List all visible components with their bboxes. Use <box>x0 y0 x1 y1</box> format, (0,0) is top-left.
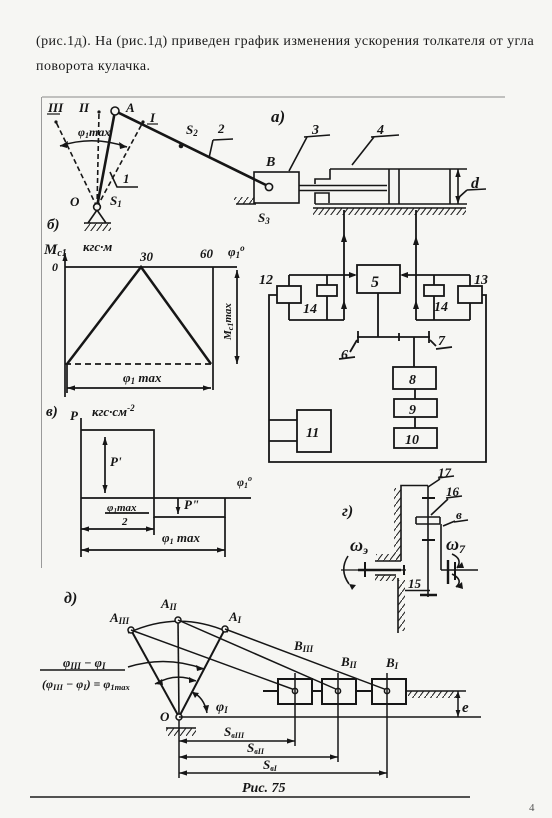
svg-text:10: 10 <box>405 433 419 448</box>
svg-text:d: d <box>471 175 480 192</box>
svg-text:BII: BII <box>340 654 357 670</box>
svg-text:5: 5 <box>371 274 379 291</box>
svg-text:8: 8 <box>409 373 416 388</box>
svg-text:0: 0 <box>52 260 58 274</box>
svg-text:б): б) <box>47 217 59 233</box>
svg-text:в: в <box>456 507 462 522</box>
svg-text:φ1max: φ1max <box>107 502 137 515</box>
svg-text:ωэ: ωэ <box>350 535 368 557</box>
svg-text:4: 4 <box>376 123 384 138</box>
svg-text:кгс·м: кгс·м <box>83 239 112 254</box>
svg-text:г): г) <box>342 503 353 520</box>
svg-text:кгс·см-2: кгс·см-2 <box>92 403 135 419</box>
svg-text:AI: AI <box>228 609 242 625</box>
svg-text:O: O <box>70 194 80 209</box>
svg-text:а): а) <box>271 107 285 126</box>
svg-text:φ1max: φ1max <box>78 125 110 140</box>
svg-text:в): в) <box>46 404 58 420</box>
svg-text:11: 11 <box>306 426 319 441</box>
svg-text:III: III <box>47 100 64 115</box>
svg-text:SвIII: SвIII <box>224 724 245 740</box>
svg-text:SвII: SвII <box>247 740 265 756</box>
svg-text:2: 2 <box>121 516 128 528</box>
svg-text:P: P <box>70 408 79 423</box>
svg-text:12: 12 <box>259 273 273 288</box>
svg-text:2: 2 <box>217 121 225 136</box>
svg-text:AIII: AIII <box>109 610 130 626</box>
svg-text:II: II <box>78 100 90 115</box>
svg-text:BI: BI <box>385 655 399 671</box>
svg-text:13: 13 <box>474 273 488 288</box>
svg-text:P': P' <box>110 454 122 469</box>
svg-text:S1: S1 <box>110 193 122 209</box>
svg-text:6: 6 <box>341 348 348 363</box>
svg-text:φI: φI <box>216 700 228 715</box>
svg-text:1: 1 <box>123 171 130 186</box>
svg-text:д): д) <box>64 590 77 607</box>
svg-text:φ1 max: φ1 max <box>162 530 200 546</box>
svg-text:e: e <box>462 700 469 716</box>
svg-text:16: 16 <box>446 484 460 499</box>
svg-text:A: A <box>125 100 135 115</box>
svg-text:S2: S2 <box>186 122 198 138</box>
svg-text:AII: AII <box>160 596 177 612</box>
svg-text:60: 60 <box>200 246 214 261</box>
svg-text:φ1o: φ1o <box>237 474 252 490</box>
svg-text:S3: S3 <box>258 210 270 226</box>
svg-text:SвI: SвI <box>263 757 278 773</box>
svg-text:Рис. 75: Рис. 75 <box>242 781 286 796</box>
svg-text:Mс1max: Mс1max <box>222 303 235 341</box>
svg-text:φ1o: φ1o <box>228 243 245 260</box>
svg-text:14: 14 <box>434 300 448 315</box>
svg-text:φIII − φI: φIII − φI <box>63 656 106 671</box>
svg-text:φ1 max: φ1 max <box>123 370 162 386</box>
svg-text:B: B <box>265 155 275 170</box>
svg-text:BIII: BIII <box>293 638 314 654</box>
svg-text:9: 9 <box>409 403 416 418</box>
svg-text:(φIII − φI) = φ1max: (φIII − φI) = φ1max <box>42 677 131 692</box>
svg-text:7: 7 <box>438 334 446 349</box>
svg-text:ω7: ω7 <box>446 534 466 556</box>
svg-text:15: 15 <box>408 576 422 591</box>
svg-text:P": P" <box>184 497 199 512</box>
svg-text:30: 30 <box>139 249 154 264</box>
svg-text:17: 17 <box>438 465 452 480</box>
svg-text:I: I <box>149 110 156 125</box>
svg-text:Mс1: Mс1 <box>43 242 67 259</box>
svg-text:O: O <box>160 709 170 724</box>
svg-text:14: 14 <box>303 302 317 317</box>
svg-text:3: 3 <box>311 123 319 138</box>
